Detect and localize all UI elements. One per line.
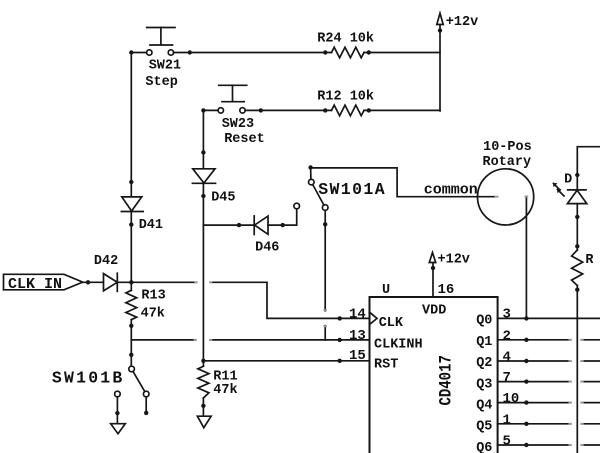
node dot R24 left — [323, 50, 327, 54]
svg-text:D41: D41 — [139, 218, 163, 233]
node dot below D45 — [201, 194, 205, 198]
Q6 pin line — [498, 444, 571, 446]
Q1 pin line (hop over LED rail) — [498, 339, 571, 341]
node dot Q5 — [524, 422, 528, 426]
svg-text:Reset: Reset — [224, 132, 265, 147]
power +12v (VDD) — [429, 253, 435, 263]
svg-text:+12v: +12v — [446, 15, 478, 30]
ground (R11) — [197, 416, 211, 428]
wire D42 to rail A — [117, 281, 196, 283]
resistor R11 — [198, 366, 209, 398]
svg-text:10-Pos: 10-Pos — [483, 140, 532, 155]
node dot on RST line — [338, 359, 342, 363]
wire segment joining CLKINH — [324, 326, 326, 340]
resistor R12 — [332, 105, 365, 116]
svg-text:SW101A: SW101A — [318, 180, 386, 199]
node junction SW23 left — [201, 108, 205, 112]
svg-text:R13: R13 — [141, 289, 165, 304]
svg-text:SW21: SW21 — [149, 58, 181, 73]
node dot below LED — [575, 215, 579, 219]
node dot right of SW21 — [188, 50, 192, 54]
wire rail B vertical SW23 to D45 — [202, 110, 204, 168]
svg-text:D: D — [564, 173, 572, 188]
svg-text:Q3: Q3 — [476, 377, 492, 392]
diode D41 — [121, 197, 143, 212]
wire RST line — [203, 360, 369, 362]
svg-text:16: 16 — [438, 282, 455, 298]
svg-text:VDD: VDD — [422, 303, 446, 318]
node dot Q1 — [524, 338, 528, 342]
wire rotary wiper down to Q0 — [525, 197, 527, 318]
wire rail B D45 down to RST — [202, 183, 204, 366]
wire LED top — [577, 147, 600, 190]
wire SW101A to rotary common — [311, 168, 495, 197]
wire SW23 left to rail B — [203, 109, 218, 111]
IC U1 CD4017 body — [370, 297, 498, 453]
Q5 pin line — [498, 423, 571, 425]
Q0 pin line — [498, 317, 600, 319]
LED D — [553, 183, 587, 204]
wire CLK IN to D42 — [83, 281, 104, 283]
svg-text:7: 7 — [503, 370, 511, 386]
node dot rail A CLK — [129, 280, 133, 284]
svg-text:Q5: Q5 — [476, 420, 492, 435]
node dot above R — [575, 244, 579, 248]
svg-text:R: R — [585, 253, 594, 268]
input tag CLK IN — [4, 274, 83, 290]
svg-text:+12v: +12v — [438, 252, 470, 267]
node dot above SW101B — [129, 353, 133, 357]
Q4 pin line — [498, 402, 571, 404]
node dot Q2 — [524, 359, 528, 363]
wire R13 down to SW101B — [130, 320, 132, 367]
wire R down across Q lines — [576, 285, 578, 453]
svg-text:Q6: Q6 — [476, 441, 492, 453]
svg-text:R12 10k: R12 10k — [317, 90, 374, 105]
node dot R12 left — [323, 108, 327, 112]
node dot R12 right — [367, 108, 371, 112]
svg-text:14: 14 — [349, 306, 366, 322]
diode D45 — [192, 169, 215, 184]
svg-text:2: 2 — [503, 328, 511, 344]
svg-text:SW23: SW23 — [222, 117, 254, 132]
switch SW101B — [115, 366, 149, 397]
svg-text:U: U — [382, 283, 390, 298]
svg-text:Q1: Q1 — [476, 335, 492, 350]
wire SW101B left to ground — [116, 397, 118, 424]
ground (SW101B) — [111, 424, 126, 434]
svg-text:Q0: Q0 — [476, 314, 492, 329]
svg-text:CLKINH: CLKINH — [374, 337, 423, 352]
Q3 pin line — [498, 381, 571, 383]
resistor R (right) — [572, 250, 583, 286]
wire SW101B right stub — [145, 397, 147, 413]
node dot on CLKINH line — [338, 338, 342, 342]
wire SW101A lower to CLKINH (with hop over CLK) — [324, 210, 326, 310]
node dot above D41 — [129, 180, 133, 184]
node dot Q3 — [524, 379, 528, 383]
diode D42 — [104, 273, 118, 291]
svg-text:1: 1 — [503, 412, 511, 428]
pin 16 stub — [432, 263, 434, 298]
svg-text:SW101B: SW101B — [52, 368, 125, 387]
Q2 pin line — [498, 360, 571, 362]
wire R11 to ground — [202, 398, 204, 416]
node dot on CLK line — [338, 316, 342, 320]
svg-text:D42: D42 — [94, 254, 118, 269]
svg-text:5: 5 — [503, 434, 511, 450]
wire D46 right — [268, 209, 297, 225]
node dot D46 left — [237, 223, 241, 227]
wire hop resume to corner, down to CLK pin line — [211, 282, 370, 318]
svg-text:common: common — [424, 182, 478, 199]
resistor R24 — [332, 47, 365, 58]
svg-text:47k: 47k — [213, 383, 237, 398]
wire CLKINH left — [131, 339, 195, 341]
svg-text:R24 10k: R24 10k — [317, 31, 374, 46]
node dot below R13 — [129, 324, 133, 328]
node dot Q6 — [524, 443, 528, 447]
clock chevron pin14 — [370, 312, 378, 324]
svg-text:10: 10 — [503, 391, 520, 407]
node dot SW101B right — [144, 411, 148, 415]
svg-text:47k: 47k — [141, 306, 165, 321]
wire SW23 right to R12 — [245, 109, 331, 111]
svg-text:Q2: Q2 — [476, 356, 492, 371]
power +12v top — [437, 13, 443, 111]
pushbutton SW21 — [147, 28, 175, 56]
pushbutton SW23 — [218, 85, 247, 113]
svg-text:Q4: Q4 — [476, 399, 492, 414]
switch SW101A — [309, 168, 329, 211]
wire rail A vertical SW21 to D41 — [130, 53, 132, 198]
node dot SW101A top — [308, 165, 312, 169]
svg-text:4: 4 — [503, 350, 511, 366]
wire D46 left — [203, 224, 254, 226]
svg-text:Step: Step — [145, 75, 177, 90]
node junction SW21 left — [129, 50, 133, 54]
svg-text:CLK IN: CLK IN — [8, 276, 62, 293]
node dot after CLK IN — [86, 280, 90, 284]
svg-text:Rotary: Rotary — [483, 155, 532, 170]
node dot below D41 — [129, 222, 133, 226]
svg-text:13: 13 — [349, 328, 366, 344]
diode D46 — [254, 216, 268, 235]
svg-text:CLK: CLK — [379, 316, 404, 331]
wire CLKINH right (after hop) — [211, 339, 370, 341]
svg-text:3: 3 — [503, 307, 511, 323]
svg-text:RST: RST — [374, 357, 398, 372]
node dot D46 right — [281, 223, 285, 227]
node dot SW101A lower — [323, 222, 327, 226]
node dot Q4 — [524, 400, 528, 404]
endpoint ticks (gray) — [195, 197, 583, 446]
terminal circle D46 — [294, 203, 300, 209]
wire LED to R — [576, 204, 578, 250]
node dot above D45 — [201, 150, 205, 154]
resistor R13 — [126, 290, 137, 319]
rotary switch circle — [478, 169, 534, 225]
wire R12 right to +12v rail corner — [364, 109, 440, 111]
svg-text:D46: D46 — [255, 240, 279, 255]
node dot pin16 — [431, 266, 435, 270]
node dot above LED — [575, 173, 579, 177]
wire SW21 left to rail A — [131, 52, 146, 54]
svg-text:D45: D45 — [211, 190, 235, 205]
node dot RST at rail B — [201, 359, 205, 363]
svg-text:CD4017: CD4017 — [436, 355, 456, 405]
node dot below R — [575, 288, 579, 292]
node dot right of SW23 — [259, 108, 263, 112]
wire D41 to CLK IN node — [130, 212, 132, 291]
node dot SW101B left — [115, 411, 119, 415]
wire SW21 right to R24 — [174, 52, 332, 54]
wire R24 right to +12v rail — [364, 52, 440, 54]
node dot Q0 — [524, 316, 528, 320]
node dot R24 right — [367, 50, 371, 54]
svg-text:15: 15 — [349, 348, 366, 364]
node dot below R11 — [201, 404, 205, 408]
